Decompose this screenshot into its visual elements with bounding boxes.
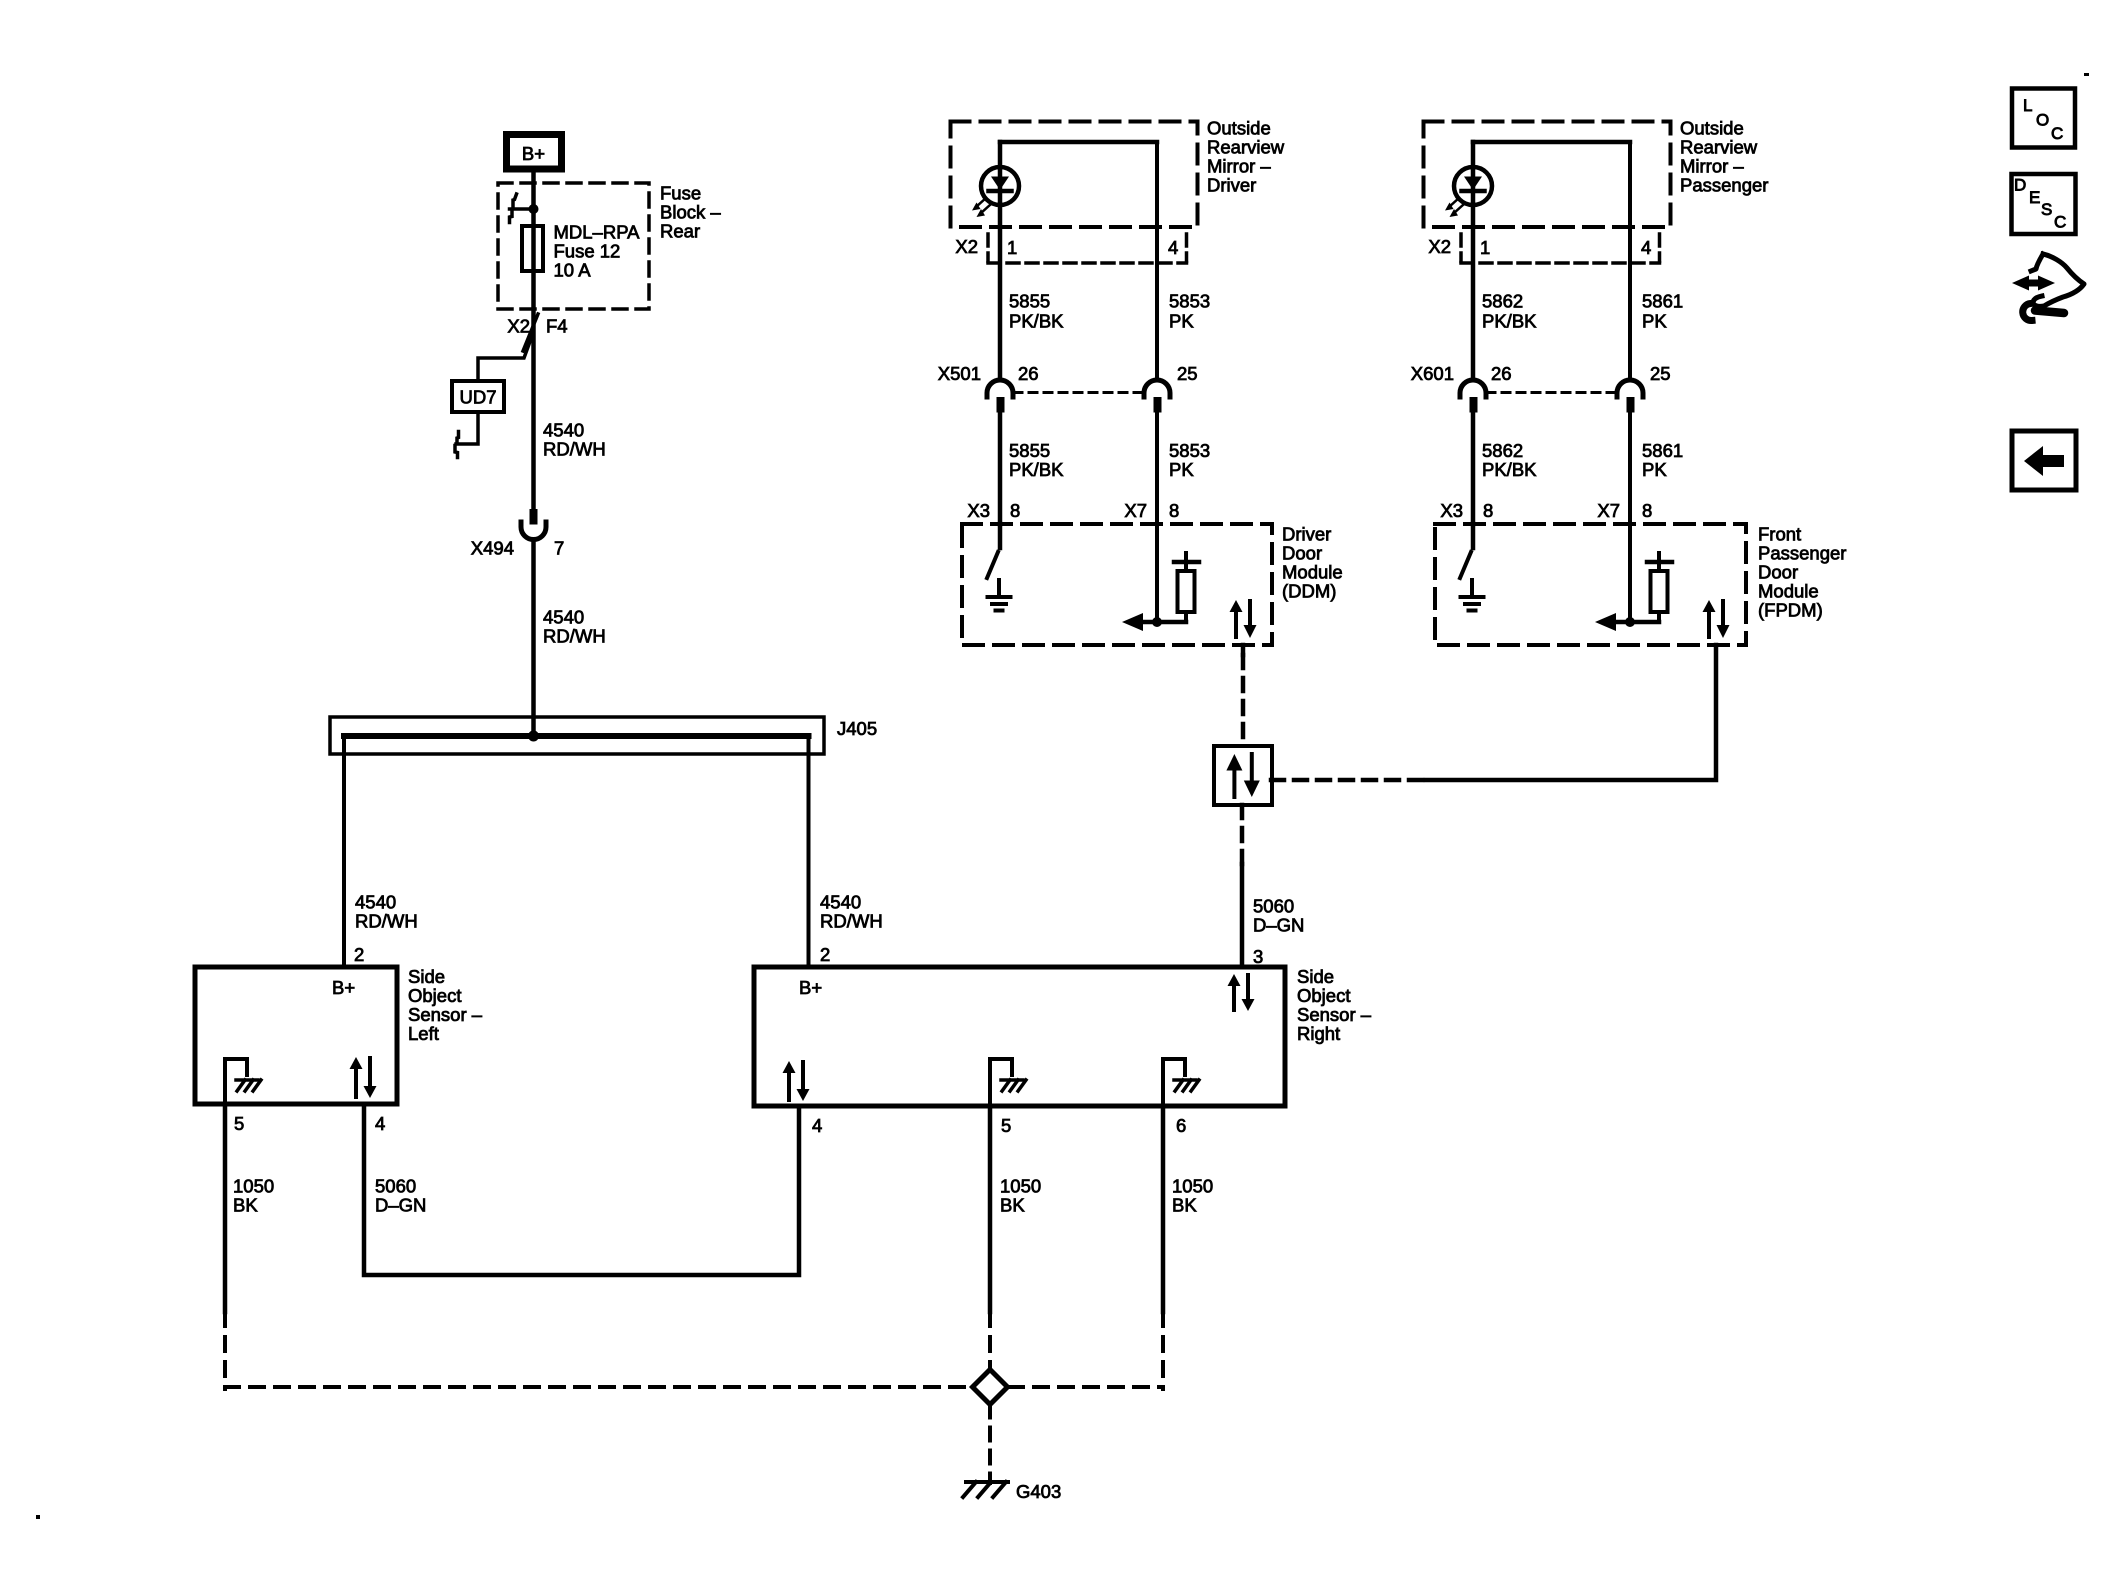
svg-text:Fuse: Fuse xyxy=(660,183,701,204)
svg-text:Right: Right xyxy=(1297,1023,1340,1044)
label Driver Door Module DDM xyxy=(1282,524,1343,602)
wire label 5855 PK/BK lower xyxy=(1009,440,1064,480)
terminal clip hook in fuse block xyxy=(510,194,517,223)
svg-text:Door: Door xyxy=(1282,543,1322,564)
tools icon wrench xyxy=(2023,304,2064,321)
svg-text:Mirror –: Mirror – xyxy=(1207,156,1271,177)
svg-text:5: 5 xyxy=(234,1113,244,1134)
svg-text:PK: PK xyxy=(1642,459,1667,480)
svg-text:Object: Object xyxy=(1297,985,1350,1006)
svg-text:X7: X7 xyxy=(1124,500,1147,521)
svg-text:5060: 5060 xyxy=(1253,896,1294,917)
wire below UD7 with terminal hook xyxy=(456,412,478,444)
wire label 5853 PK upper xyxy=(1169,291,1210,332)
mirror driver top wire xyxy=(1000,140,1157,145)
svg-text:Module: Module xyxy=(1282,562,1343,583)
junction dot on J405 bus xyxy=(528,731,539,742)
svg-text:RD/WH: RD/WH xyxy=(543,626,606,647)
comm node box xyxy=(1214,746,1272,805)
wire label 4540 RD/WH upper xyxy=(543,420,606,460)
wire mirror driver pin1 vertical xyxy=(998,142,1003,380)
svg-text:BK: BK xyxy=(1172,1195,1197,1216)
wire tick to clip xyxy=(510,207,534,211)
svg-text:PK/BK: PK/BK xyxy=(1009,311,1064,332)
svg-text:C: C xyxy=(2054,213,2066,232)
wire X501-26 to DDM X3 xyxy=(998,413,1003,525)
Side Object Sensor Left box xyxy=(195,967,397,1104)
dashed wire diamond to ground G403 xyxy=(988,1405,992,1484)
wire label 4540 RD/WH left drop xyxy=(355,892,418,932)
svg-text:Rearview: Rearview xyxy=(1207,137,1285,158)
svg-text:PK: PK xyxy=(1169,459,1194,480)
speck bottom left xyxy=(36,1515,40,1519)
svg-text:RD/WH: RD/WH xyxy=(355,911,418,932)
wire label 5862 PK/BK lower xyxy=(1482,440,1537,480)
svg-text:5060: 5060 xyxy=(375,1176,416,1197)
svg-text:Passenger: Passenger xyxy=(1758,543,1846,564)
ground jog right sensor pin 6 xyxy=(1163,1059,1185,1106)
svg-text:Fuse 12: Fuse 12 xyxy=(554,241,621,262)
label Outside Rearview Mirror Passenger xyxy=(1680,118,1768,196)
wire label 5060 D-GN comm xyxy=(1253,896,1304,936)
wire J405 to left sensor pin 2 xyxy=(342,738,346,967)
resistor branch in DDM xyxy=(1174,553,1199,622)
wire label 5861 PK lower xyxy=(1642,440,1683,480)
LED light arrows passenger xyxy=(1445,198,1464,217)
svg-text:1050: 1050 xyxy=(1000,1176,1041,1197)
svg-text:7: 7 xyxy=(554,538,564,559)
labels X601 26 25 xyxy=(1411,363,1671,384)
svg-text:F4: F4 xyxy=(546,316,568,337)
dashed comm wire below comm node xyxy=(1240,805,1245,864)
comm stub below DDM xyxy=(1241,645,1246,655)
arrow line in FPDM xyxy=(1595,613,1659,631)
svg-text:PK: PK xyxy=(1169,311,1194,332)
svg-text:C: C xyxy=(2051,124,2063,143)
label Outside Rearview Mirror Driver xyxy=(1207,118,1285,196)
fuse block name label xyxy=(660,183,721,242)
LED light arrows driver xyxy=(972,198,991,217)
wire 5060 D-GN interconnect pin4 to pin4 xyxy=(364,1104,799,1275)
dashed wire pin6 to collector xyxy=(1161,1312,1165,1389)
wire label 4540 RD/WH lower xyxy=(543,607,606,647)
connector X601 arc pin 25 xyxy=(1617,380,1643,413)
Front Passenger Door Module box xyxy=(1435,524,1746,645)
svg-text:S: S xyxy=(2041,200,2052,219)
labels X7 8 driver xyxy=(1124,500,1179,521)
svg-text:X3: X3 xyxy=(967,500,990,521)
svg-text:Door: Door xyxy=(1758,562,1798,583)
connector X2 pin F4 labels xyxy=(507,316,567,337)
svg-text:Mirror –: Mirror – xyxy=(1680,156,1744,177)
chassis ground glyph right sensor pin 6 xyxy=(1174,1080,1199,1091)
wire 1050 BK right sensor pin 6 xyxy=(1161,1106,1166,1312)
svg-text:B+: B+ xyxy=(522,143,545,164)
comm arrows in DDM xyxy=(1230,600,1257,638)
svg-text:3: 3 xyxy=(1253,946,1263,967)
ground jog in left sensor xyxy=(225,1059,247,1104)
wire X7 into DDM to arrow xyxy=(1155,524,1159,622)
svg-text:Side: Side xyxy=(408,966,445,987)
label Front Passenger Door Module FPDM xyxy=(1758,524,1846,621)
label 5060 D-GN left xyxy=(375,1176,426,1216)
switch to ground in DDM xyxy=(987,524,1000,578)
label 1050 BK right pin5 xyxy=(1000,1176,1041,1216)
svg-text:UD7: UD7 xyxy=(459,387,496,408)
Outside Rearview Mirror Passenger box xyxy=(1424,122,1671,228)
svg-text:X601: X601 xyxy=(1411,363,1454,384)
DESC icon box xyxy=(2012,174,2076,234)
wire X601-26 to FPDM X3 xyxy=(1471,413,1476,525)
comm arrows in FPDM xyxy=(1703,600,1730,638)
splice diamond xyxy=(973,1370,1008,1405)
wire label 5853 PK lower xyxy=(1169,440,1210,480)
solid comm wire to right sensor pin 3 xyxy=(1240,864,1245,967)
comm arrows in comm node xyxy=(1226,754,1259,797)
earth ground in DDM xyxy=(988,580,1011,611)
ground symbol G403 xyxy=(963,1482,1008,1497)
labels X3 8 passenger xyxy=(1440,500,1493,521)
svg-text:2: 2 xyxy=(820,944,830,965)
labels X501 26 25 xyxy=(938,363,1198,384)
connector X501 arc pin 26 xyxy=(987,380,1013,413)
svg-text:Sensor –: Sensor – xyxy=(408,1004,483,1025)
svg-text:Driver: Driver xyxy=(1207,175,1256,196)
svg-text:8: 8 xyxy=(1169,500,1179,521)
solid comm wire to FPDM xyxy=(1426,645,1716,780)
label 1050 BK left xyxy=(233,1176,274,1216)
back arrow icon box xyxy=(2012,431,2076,490)
svg-text:5862: 5862 xyxy=(1482,291,1523,312)
dashed ground collector wire left segment xyxy=(225,1385,971,1389)
connector X2 row driver mirror xyxy=(988,234,1187,263)
svg-text:1: 1 xyxy=(1480,237,1490,258)
comm arrows right sensor bottom xyxy=(783,1061,810,1101)
svg-text:L: L xyxy=(2023,96,2032,115)
dashed wire pin5 right to splice diamond xyxy=(988,1312,992,1370)
svg-text:1050: 1050 xyxy=(233,1176,274,1197)
svg-text:Outside: Outside xyxy=(1680,118,1744,139)
svg-text:26: 26 xyxy=(1018,363,1039,384)
wire 1050 BK from left sensor pin 5 xyxy=(223,1104,228,1312)
splice pack J405 xyxy=(330,717,824,754)
dotted seam X501 xyxy=(1014,391,1143,394)
svg-text:25: 25 xyxy=(1650,363,1671,384)
svg-text:4540: 4540 xyxy=(543,607,584,628)
earth ground in FPDM xyxy=(1461,580,1484,611)
svg-text:X7: X7 xyxy=(1597,500,1620,521)
svg-text:Module: Module xyxy=(1758,581,1819,602)
svg-text:BK: BK xyxy=(233,1195,258,1216)
svg-text:Left: Left xyxy=(408,1023,439,1044)
svg-text:1: 1 xyxy=(1007,237,1017,258)
Outside Rearview Mirror Driver box xyxy=(951,122,1198,228)
terminal clip hook below UD7 xyxy=(455,432,459,458)
svg-text:X3: X3 xyxy=(1440,500,1463,521)
wire label 5862 PK/BK upper xyxy=(1482,291,1537,332)
junction dot at clip xyxy=(529,204,539,214)
wire X601-25 to FPDM X7 xyxy=(1628,413,1632,525)
UD7 option box xyxy=(452,381,504,412)
svg-text:Rear: Rear xyxy=(660,221,700,242)
svg-text:Object: Object xyxy=(408,985,461,1006)
junction dot FPDM xyxy=(1625,617,1635,627)
wire X501-25 to DDM X7 xyxy=(1155,413,1159,525)
chassis ground glyph left sensor xyxy=(236,1080,261,1091)
svg-text:Outside: Outside xyxy=(1207,118,1271,139)
svg-text:8: 8 xyxy=(1010,500,1020,521)
connector slash at X2/F4 xyxy=(523,314,538,351)
branch wire to UD7 xyxy=(478,336,532,381)
svg-text:PK/BK: PK/BK xyxy=(1482,311,1537,332)
connector X501 arc pin 25 xyxy=(1144,380,1170,413)
in-line connector X494 pin 7 xyxy=(521,509,546,540)
labels X7 8 passenger xyxy=(1597,500,1652,521)
svg-text:B+: B+ xyxy=(799,977,822,998)
svg-text:4540: 4540 xyxy=(355,892,396,913)
wire J405 to right sensor pin 2 xyxy=(807,738,811,967)
connector X2 row passenger mirror xyxy=(1461,234,1660,263)
svg-text:8: 8 xyxy=(1642,500,1652,521)
svg-text:Front: Front xyxy=(1758,524,1801,545)
junction dot DDM xyxy=(1152,617,1162,627)
svg-text:X2: X2 xyxy=(1428,236,1451,257)
svg-text:Side: Side xyxy=(1297,966,1334,987)
svg-text:(FPDM): (FPDM) xyxy=(1758,600,1823,621)
svg-text:4540: 4540 xyxy=(543,420,584,441)
svg-text:G403: G403 xyxy=(1016,1481,1061,1502)
svg-text:26: 26 xyxy=(1491,363,1512,384)
label Side Object Sensor Left xyxy=(408,966,483,1044)
svg-text:5861: 5861 xyxy=(1642,440,1683,461)
svg-text:X494: X494 xyxy=(471,538,514,559)
comm arrows in left sensor xyxy=(350,1057,377,1098)
svg-text:Sensor –: Sensor – xyxy=(1297,1004,1372,1025)
svg-text:5862: 5862 xyxy=(1482,440,1523,461)
svg-text:5: 5 xyxy=(1001,1115,1011,1136)
svg-text:D: D xyxy=(2014,176,2026,195)
svg-text:5855: 5855 xyxy=(1009,440,1050,461)
svg-text:8: 8 xyxy=(1483,500,1493,521)
LED lamp driver mirror xyxy=(981,167,1019,205)
svg-text:5853: 5853 xyxy=(1169,440,1210,461)
LED lamp passenger mirror xyxy=(1454,167,1492,205)
wire mirror passenger pin4 vertical xyxy=(1628,142,1632,380)
svg-text:D–GN: D–GN xyxy=(1253,915,1304,936)
wire X7 into FPDM to arrow xyxy=(1628,524,1632,622)
svg-text:6: 6 xyxy=(1176,1115,1186,1136)
wire B+ feed vertical xyxy=(531,172,536,509)
wire label 5861 PK upper xyxy=(1642,291,1683,332)
arrow line in DDM xyxy=(1122,613,1186,631)
svg-text:D–GN: D–GN xyxy=(375,1195,426,1216)
svg-text:5861: 5861 xyxy=(1642,291,1683,312)
svg-text:B+: B+ xyxy=(332,977,355,998)
dashed wire pin5 left to collector xyxy=(223,1312,227,1389)
svg-text:X2: X2 xyxy=(507,316,530,337)
svg-text:PK: PK xyxy=(1642,311,1667,332)
wire X494 to J405 xyxy=(531,540,536,737)
mirror passenger top wire xyxy=(1473,140,1630,145)
svg-text:4: 4 xyxy=(375,1113,385,1134)
ground jog right sensor pin 5 xyxy=(990,1059,1012,1106)
svg-text:4: 4 xyxy=(812,1115,822,1136)
wire label 5855 PK/BK upper xyxy=(1009,291,1064,332)
svg-text:10 A: 10 A xyxy=(554,260,592,281)
svg-text:5855: 5855 xyxy=(1009,291,1050,312)
svg-text:4: 4 xyxy=(1168,237,1178,258)
Driver Door Module box xyxy=(962,524,1272,645)
connector X494 labels xyxy=(471,538,565,559)
svg-text:RD/WH: RD/WH xyxy=(820,911,883,932)
battery feed B+ box xyxy=(507,135,562,170)
dashed comm wire DDM to comm node xyxy=(1241,655,1246,747)
svg-text:Block –: Block – xyxy=(660,202,721,223)
svg-text:J405: J405 xyxy=(837,718,877,739)
label Side Object Sensor Right xyxy=(1297,966,1372,1044)
svg-text:(DDM): (DDM) xyxy=(1282,581,1336,602)
dotted seam X601 xyxy=(1487,391,1616,394)
svg-text:Rearview: Rearview xyxy=(1680,137,1758,158)
svg-text:Passenger: Passenger xyxy=(1680,175,1768,196)
svg-text:PK/BK: PK/BK xyxy=(1009,459,1064,480)
svg-text:X2: X2 xyxy=(955,236,978,257)
tools icon double arrow xyxy=(2012,276,2055,291)
speck top right xyxy=(2084,73,2089,76)
wire mirror driver pin4 vertical xyxy=(1155,142,1159,380)
svg-text:4: 4 xyxy=(1641,237,1651,258)
svg-text:PK/BK: PK/BK xyxy=(1482,459,1537,480)
Side Object Sensor Right box xyxy=(754,967,1285,1106)
svg-text:O: O xyxy=(2036,111,2049,130)
svg-text:MDL–RPA: MDL–RPA xyxy=(554,222,641,243)
comm arrows right sensor top xyxy=(1228,974,1255,1011)
svg-text:4540: 4540 xyxy=(820,892,861,913)
svg-text:RD/WH: RD/WH xyxy=(543,439,606,460)
wire 1050 BK right sensor pin 5 xyxy=(988,1106,993,1312)
fuse value label xyxy=(554,222,641,281)
dashed comm wire comm node to right xyxy=(1271,778,1426,783)
dashed ground collector wire right segment xyxy=(1009,1385,1163,1389)
fuse block dashed box xyxy=(498,183,649,309)
LOC icon box xyxy=(2012,89,2075,148)
resistor branch in FPDM xyxy=(1647,553,1672,622)
label 1050 BK right pin6 xyxy=(1172,1176,1213,1216)
wire mirror passenger pin1 vertical xyxy=(1471,142,1476,380)
switch to ground in FPDM xyxy=(1460,524,1473,578)
connector X601 arc pin 26 xyxy=(1460,380,1486,413)
svg-text:5853: 5853 xyxy=(1169,291,1210,312)
svg-text:2: 2 xyxy=(354,944,364,965)
svg-text:25: 25 xyxy=(1177,363,1198,384)
wire label 4540 RD/WH right drop xyxy=(820,892,883,932)
svg-text:1050: 1050 xyxy=(1172,1176,1213,1197)
fuse F4 symbol MDL-RPA Fuse 12 xyxy=(522,226,543,271)
tools icon outline arrow xyxy=(2031,254,2084,306)
svg-text:X501: X501 xyxy=(938,363,981,384)
svg-text:Driver: Driver xyxy=(1282,524,1331,545)
svg-text:BK: BK xyxy=(1000,1195,1025,1216)
labels X3 8 driver xyxy=(967,500,1020,521)
chassis ground glyph right sensor pin 5 xyxy=(1001,1080,1026,1091)
svg-text:E: E xyxy=(2029,188,2040,207)
